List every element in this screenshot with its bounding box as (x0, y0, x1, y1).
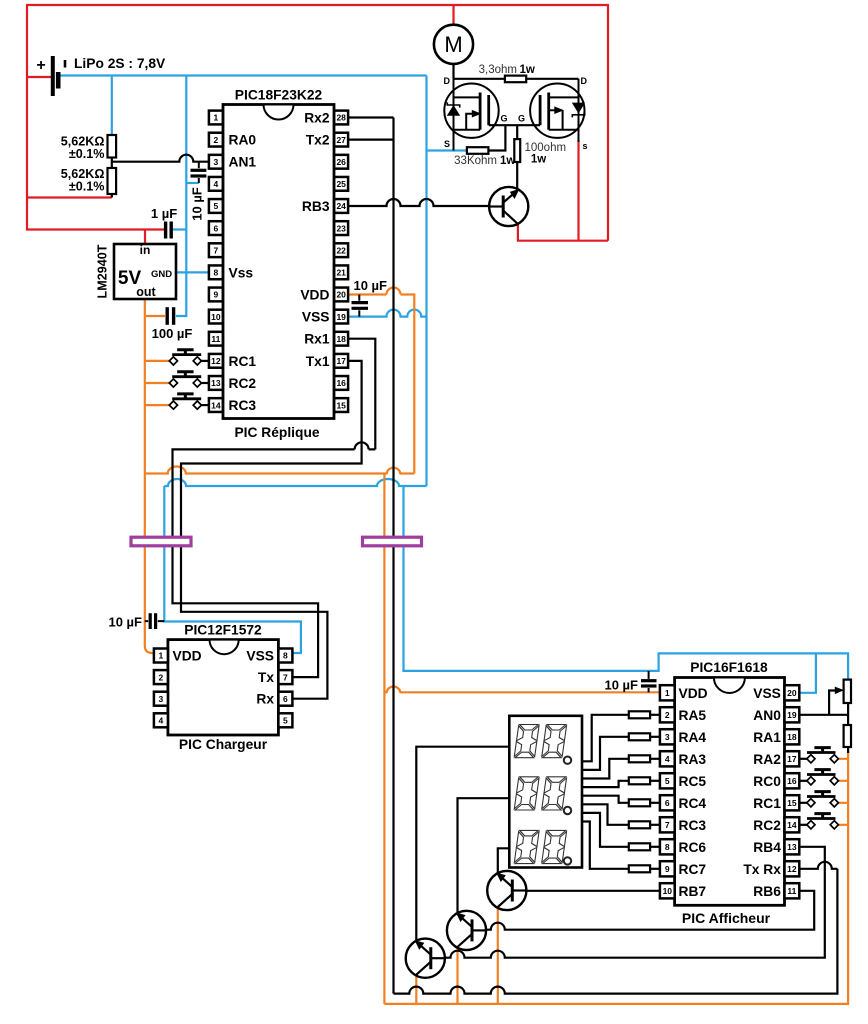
svg-text:1: 1 (665, 688, 670, 698)
wire 33Kohm to gate (488, 125, 505, 150)
pin box U4 pin 1 (660, 685, 675, 700)
svg-text:PIC16F1618: PIC16F1618 (690, 660, 768, 675)
svg-text:9: 9 (214, 290, 219, 300)
pin box U1 pin 4 (209, 177, 223, 191)
wire potentiometer to resistor divider (847, 703, 849, 753)
pin box U3 pin 2 (154, 670, 168, 684)
transistor Q1 NPN (489, 187, 528, 226)
wire blue battery- rail (59, 74, 427, 76)
svg-text:RC2: RC2 (229, 376, 257, 391)
resistor R9 segment pin 5 (629, 777, 650, 784)
svg-text:VDD: VDD (173, 649, 202, 664)
svg-text:4: 4 (214, 179, 219, 189)
svg-text:Tx1: Tx1 (306, 354, 330, 369)
pin box U1 pin 17 (334, 354, 348, 368)
pushbutton S4 (807, 748, 839, 763)
capacitor C5 10uF at PIC chargeur (149, 613, 152, 629)
svg-text:GND: GND (151, 269, 172, 280)
resistor R5 100ohm (514, 139, 520, 162)
svg-text:S: S (444, 139, 450, 149)
svg-text:RB4: RB4 (753, 840, 781, 855)
svg-text:Tx: Tx (258, 670, 274, 685)
svg-text:RC7: RC7 (679, 862, 707, 877)
wire resistor to pin 8 (650, 846, 660, 848)
wire orange VDD pin20 riser (348, 288, 414, 474)
potentiometer RV1 (844, 680, 851, 703)
svg-text:14: 14 (211, 400, 221, 410)
pin box U1 pin 24 (334, 199, 348, 213)
display DS1 box (509, 716, 582, 868)
svg-text:2: 2 (665, 710, 670, 720)
connector J1 left purple (131, 537, 191, 546)
wire Tx1 pin17 to PIC chargeur Rx (181, 361, 362, 699)
display dot 2 (564, 807, 571, 814)
svg-text:10 µF: 10 µF (353, 278, 387, 293)
svg-text:4: 4 (159, 716, 164, 726)
wire AN0 pin19 to potentiometer wiper (800, 691, 848, 715)
wire blue regulator GND to Vss pin8 (176, 271, 209, 273)
pin box U1 pin 22 (334, 243, 348, 257)
wire serial bus down and bottom to TxRx pin12 (394, 118, 838, 994)
wire resistor to pin 9 (650, 868, 660, 870)
wire orange emitter drop Q2 (497, 908, 499, 1004)
pin box U3 pin 8 (278, 649, 292, 663)
pin box U1 pin 19 (334, 310, 348, 324)
wire blue VSS pin19 to rail drop (348, 310, 427, 317)
wire display digit3 common to Q2 collector (498, 848, 510, 873)
pin box U3 pin 4 (154, 713, 168, 727)
ic U3 PIC12F1572 body (168, 640, 279, 735)
svg-text:3: 3 (159, 694, 164, 704)
wire red motor feed (452, 5, 454, 25)
pin box U1 pin 5 (209, 199, 223, 213)
wire blue to 33Kohm (427, 149, 467, 151)
wire drain rail left (454, 78, 505, 80)
capacitor C6 10uF at PIC afficheur (641, 671, 657, 692)
wire red battery+ top border (27, 5, 608, 241)
wire blue gnd drop to PIC afficheur (404, 486, 849, 680)
pin box U1 pin 13 (209, 376, 223, 390)
svg-text:RB6: RB6 (753, 884, 781, 899)
svg-text:VSS: VSS (302, 310, 330, 325)
wire orange 5V column from regulator (145, 299, 154, 653)
svg-text:RA1: RA1 (753, 730, 781, 745)
pin box U1 pin 11 (209, 332, 223, 346)
svg-text:8: 8 (283, 651, 288, 661)
wire orange button RC3 feed (145, 404, 171, 406)
svg-text:±0.1%: ±0.1% (69, 180, 105, 194)
pin box U4 pin 17 (785, 751, 800, 766)
wire red left border down to regulator feed (27, 77, 164, 230)
mosfet Q5 left (444, 79, 498, 151)
wire display segment to pin 6 (582, 796, 629, 803)
resistor R12 segment pin 8 (629, 843, 650, 850)
pushbutton S1 RC1 (169, 350, 201, 365)
wire display segment to pin 7 (582, 804, 629, 825)
svg-text:8: 8 (214, 268, 219, 278)
wire S7 lead (800, 824, 808, 826)
wire resistor to pin 5 (650, 780, 660, 782)
pin box U4 pin 5 (660, 773, 675, 788)
wire 100ohm to Q1 collector (516, 162, 518, 191)
wire display segment to pin 9 (582, 822, 629, 869)
svg-text:10: 10 (663, 886, 673, 896)
pin box U4 pin 12 (785, 861, 800, 876)
wire red battery+ stub (27, 76, 51, 78)
capacitor C1 1uF (164, 222, 167, 239)
svg-text:3: 3 (214, 157, 219, 167)
svg-text:s: s (583, 141, 588, 151)
wire resistor to pin 6 (650, 802, 660, 804)
svg-text:14: 14 (787, 820, 797, 830)
svg-text:6: 6 (214, 223, 219, 233)
svg-text:100ohm: 100ohm (525, 142, 567, 154)
svg-text:RA4: RA4 (679, 730, 707, 745)
pin box U4 pin 6 (660, 795, 675, 810)
svg-text:1w: 1w (531, 154, 546, 166)
wire S3 to pin 14 (201, 404, 209, 406)
pin box U4 pin 9 (660, 861, 675, 876)
svg-text:3: 3 (665, 732, 670, 742)
svg-text:RC1: RC1 (753, 796, 781, 811)
wire resistor to pin 7 (650, 824, 660, 826)
svg-text:13: 13 (211, 378, 221, 388)
wire red mosfet source right (577, 140, 579, 241)
pin box U4 pin 13 (785, 839, 800, 854)
capacitor C2 10uF at AN1 (191, 162, 207, 183)
svg-text:12: 12 (787, 864, 797, 874)
resistor R13 segment pin 9 (629, 865, 650, 872)
svg-text:1w: 1w (520, 64, 535, 76)
ic U1 PIC18F23K22 body (223, 105, 334, 419)
resistor R7 segment pin 3 (629, 733, 650, 740)
pin box U4 pin 19 (785, 707, 800, 722)
wire RB3 to transistor base (348, 199, 489, 206)
svg-text:±0.1%: ±0.1% (69, 147, 105, 161)
wire resistor to pin 2 (650, 714, 660, 716)
svg-text:Tx Rx: Tx Rx (743, 862, 781, 877)
resistor R1 5.62K upper (108, 135, 117, 158)
wire blue gnd left drop to PIC chargeur (164, 486, 301, 653)
resistor R6 segment pin 2 (629, 711, 650, 718)
pin box U4 pin 14 (785, 817, 800, 832)
pin box U1 pin 20 (334, 288, 348, 302)
svg-text:RC1: RC1 (229, 354, 257, 369)
regulator U2 LM2940T 5V (114, 244, 176, 299)
svg-text:5: 5 (283, 716, 288, 726)
pin box U1 pin 18 (334, 332, 348, 346)
resistor R2 5.62K lower (108, 168, 117, 194)
resistor R10 segment pin 6 (629, 799, 650, 806)
wire orange 5V horizontal y473.5 (145, 467, 415, 474)
wire blue 1uF link (173, 228, 187, 230)
svg-text:VDD: VDD (300, 287, 329, 302)
svg-text:G: G (518, 114, 525, 124)
wire orange VDD pin1 PIC afficheur branch (384, 686, 660, 692)
svg-text:1: 1 (214, 113, 219, 123)
svg-text:23: 23 (336, 223, 346, 233)
svg-text:18: 18 (336, 334, 346, 344)
pin box U1 pin 26 (334, 155, 348, 169)
svg-text:RA0: RA0 (229, 133, 257, 148)
svg-text:13: 13 (787, 842, 797, 852)
svg-text:19: 19 (787, 710, 797, 720)
svg-text:24: 24 (336, 201, 346, 211)
pin box U1 pin 15 (334, 398, 348, 412)
resistor R4 33Kohm (467, 147, 489, 154)
battery BT1 LiPo (36, 56, 65, 96)
pin box U1 pin 7 (209, 243, 223, 257)
wire RB7 pin10 to Q2 base (526, 890, 660, 892)
svg-text:1w: 1w (500, 155, 515, 167)
pin box U1 pin 8 (209, 265, 223, 279)
ic U4 notch (714, 678, 745, 693)
wire orange button RC1 feed (145, 360, 171, 362)
wire orange right column button feeds (837, 759, 848, 825)
svg-text:15: 15 (787, 798, 797, 808)
pin box U1 pin 2 (209, 133, 223, 147)
svg-text:RC2: RC2 (753, 818, 781, 833)
pin box U1 pin 28 (334, 111, 348, 125)
pin box U3 pin 6 (278, 692, 292, 706)
wire S4 lead (800, 758, 808, 760)
svg-text:2: 2 (159, 672, 164, 682)
svg-text:20: 20 (787, 688, 797, 698)
display dot 1 (564, 757, 571, 764)
resistor R11 segment pin 7 (629, 821, 650, 828)
wire AN1 divider tap (112, 155, 209, 168)
svg-text:RA3: RA3 (679, 752, 707, 767)
pin box U4 pin 16 (785, 773, 800, 788)
svg-text:1 µF: 1 µF (151, 206, 177, 221)
svg-text:10 µF: 10 µF (604, 678, 638, 693)
wire R2 bottom to red (111, 194, 113, 198)
wire blue divider riser (111, 76, 113, 136)
svg-text:RC0: RC0 (753, 774, 781, 789)
svg-text:7: 7 (665, 820, 670, 830)
svg-text:21: 21 (336, 268, 346, 278)
transistor Q3 NPN (447, 911, 486, 950)
pushbutton S3 RC3 (169, 394, 201, 409)
wire display digit2 common to Q3 collector (458, 798, 510, 913)
svg-text:PIC18F23K22: PIC18F23K22 (235, 88, 323, 103)
display digit 1-2 (542, 725, 567, 758)
svg-text:15: 15 (336, 400, 346, 410)
svg-text:100 µF: 100 µF (152, 326, 193, 341)
svg-text:17: 17 (787, 754, 797, 764)
svg-text:PIC Afficheur: PIC Afficheur (682, 910, 771, 926)
svg-text:VSS: VSS (753, 686, 781, 701)
display digit 3-1 (514, 830, 539, 863)
svg-text:AN0: AN0 (753, 708, 781, 723)
svg-text:11: 11 (787, 886, 796, 896)
svg-text:5: 5 (214, 201, 219, 211)
svg-text:7: 7 (283, 672, 288, 682)
svg-text:8: 8 (665, 842, 670, 852)
svg-text:Rx: Rx (256, 692, 274, 707)
display digit 2-1 (514, 777, 539, 810)
svg-text:D: D (581, 76, 588, 86)
svg-text:RA5: RA5 (679, 708, 707, 723)
wire display segment to pin 3 (582, 737, 629, 770)
svg-text:VSS: VSS (246, 649, 274, 664)
wire orange 5V drop to bottom section (383, 474, 385, 1004)
pin box U4 pin 11 (785, 883, 800, 898)
transistor Q4 NPN (406, 939, 445, 978)
transistor Q2 NPN (487, 871, 526, 910)
svg-text:16: 16 (787, 776, 797, 786)
pin box U1 pin 9 (209, 288, 223, 302)
display digit 1-1 (514, 725, 539, 758)
svg-text:7: 7 (214, 245, 219, 255)
wire red regulator in riser (144, 230, 146, 246)
pushbutton S6 (807, 792, 839, 807)
pin box U1 pin 23 (334, 221, 348, 235)
svg-text:22: 22 (336, 245, 346, 255)
wire display segment to pin 4 (582, 759, 629, 779)
wire Rx2 pin28 (348, 116, 394, 118)
motor M1 (434, 25, 473, 64)
wire gate to 100ohm (516, 125, 518, 139)
svg-text:2: 2 (214, 135, 219, 145)
pin box U1 pin 21 (334, 265, 348, 279)
svg-text:Rx1: Rx1 (304, 332, 330, 347)
pin box U1 pin 14 (209, 398, 223, 412)
svg-text:D: D (444, 76, 451, 86)
svg-text:25: 25 (336, 179, 346, 189)
svg-text:RC5: RC5 (679, 774, 707, 789)
svg-text:10 µF: 10 µF (108, 615, 142, 630)
pushbutton S2 RC2 (169, 372, 201, 387)
svg-text:6: 6 (665, 798, 670, 808)
svg-text:6: 6 (283, 694, 288, 704)
wire drain rail right (526, 78, 578, 80)
svg-text:LiPo 2S : 7,8V: LiPo 2S : 7,8V (74, 56, 166, 71)
capacitor C4 10uF at VDD20 (352, 295, 369, 317)
wire display segment to pin 8 (582, 813, 629, 847)
pin box U1 pin 1 (209, 111, 223, 125)
resistor R8 segment pin 4 (629, 755, 650, 762)
svg-text:Vss: Vss (229, 265, 254, 280)
svg-text:10: 10 (211, 312, 221, 322)
svg-text:19: 19 (336, 312, 346, 322)
pin box U1 pin 27 (334, 133, 348, 147)
pin box U1 pin 25 (334, 177, 348, 191)
svg-text:3,3ohm: 3,3ohm (479, 64, 517, 76)
svg-text:12: 12 (211, 356, 221, 366)
wire resistor to pin 4 (650, 758, 660, 760)
svg-text:LM2940T: LM2940T (96, 244, 110, 298)
svg-text:4: 4 (665, 754, 670, 764)
wire gate junction (489, 124, 540, 126)
svg-text:18: 18 (787, 732, 797, 742)
connector J2 right purple (363, 537, 422, 546)
svg-text:AN1: AN1 (229, 155, 257, 170)
svg-text:+: + (36, 57, 45, 74)
ic U4 PIC16F1618 body (675, 678, 785, 906)
display digit 3-2 (542, 830, 567, 863)
capacitor C3 100uF (165, 307, 168, 325)
arrow RV1 wiper (835, 687, 843, 693)
display dot 3 (564, 857, 571, 864)
pin box U3 pin 7 (278, 670, 292, 684)
wire red to divider bottom (27, 196, 112, 198)
pin box U4 pin 7 (660, 817, 675, 832)
wire blue main gnd horizontal y486 (164, 479, 426, 486)
svg-text:33Kohm: 33Kohm (454, 155, 497, 167)
wire TxRx pin12 lead (800, 862, 838, 869)
pin box U4 pin 4 (660, 751, 675, 766)
pin box U4 pin 3 (660, 729, 675, 744)
wire Rx1 pin18 to PIC chargeur Tx (173, 339, 376, 677)
svg-text:RC4: RC4 (679, 796, 707, 811)
svg-text:G: G (500, 114, 507, 124)
svg-text:RC3: RC3 (229, 398, 257, 413)
display digit 2-2 (542, 777, 567, 810)
wire blue AN1 cap link (186, 182, 199, 184)
ic U1 notch (264, 105, 294, 120)
wire S2 to pin 13 (201, 382, 209, 384)
svg-text:RA2: RA2 (753, 752, 781, 767)
wire RB4 pin13 to Q4 base (445, 847, 825, 958)
pin box U4 pin 2 (660, 707, 675, 722)
svg-text:5: 5 (665, 776, 670, 786)
svg-text:RC3: RC3 (679, 818, 707, 833)
pushbutton S5 (807, 770, 839, 785)
svg-text:Tx2: Tx2 (306, 133, 330, 148)
pin box U3 pin 1 (154, 649, 168, 663)
svg-text:PIC Chargeur: PIC Chargeur (179, 737, 268, 752)
wire Tx2 pin27 (348, 139, 394, 141)
svg-text:out: out (136, 285, 156, 299)
pin box U1 pin 6 (209, 221, 223, 235)
svg-text:10 µF: 10 µF (190, 187, 205, 221)
wire resistor to pin 3 (650, 736, 660, 738)
wire display digit1 common to Q4 collector (416, 747, 509, 942)
svg-text:PIC Réplique: PIC Réplique (234, 425, 319, 440)
svg-text:Rx2: Rx2 (304, 111, 330, 126)
svg-text:PIC12F1572: PIC12F1572 (184, 623, 262, 638)
wire display segment to pin 5 (582, 781, 629, 787)
wire RB6 pin11 to Q3 base (486, 891, 815, 930)
pin box U1 pin 10 (209, 310, 223, 324)
wire blue gnd column x186 (176, 76, 186, 317)
resistor R14 divider (844, 725, 851, 747)
pin box U1 pin 12 (209, 354, 223, 368)
svg-text:1: 1 (159, 651, 164, 661)
svg-text:20: 20 (336, 290, 346, 300)
wire S1 to pin 12 (201, 360, 209, 362)
svg-text:17: 17 (336, 356, 346, 366)
svg-text:27: 27 (336, 135, 346, 145)
svg-text:16: 16 (336, 378, 346, 388)
pin box U4 pin 15 (785, 795, 800, 810)
wire orange bottom border (384, 751, 848, 1004)
wire S5 lead (800, 780, 808, 782)
wire orange 100uF link (145, 315, 165, 317)
pin box U3 pin 3 (154, 692, 168, 706)
wire red transistor emitter to rail (518, 224, 608, 241)
svg-text:RC6: RC6 (679, 840, 707, 855)
mosfet Q6 right (530, 79, 585, 142)
pin box U4 pin 10 (660, 883, 675, 898)
pin box U4 pin 20 (785, 685, 800, 700)
pin box U1 pin 3 (209, 155, 223, 169)
wire orange button RC2 feed (145, 382, 171, 384)
ic U3 notch (210, 640, 239, 655)
svg-text:26: 26 (336, 157, 346, 167)
svg-text:28: 28 (336, 113, 346, 123)
